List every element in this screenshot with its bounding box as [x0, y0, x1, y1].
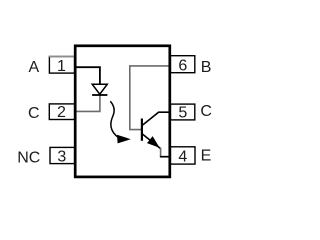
- svg-text:1: 1: [57, 58, 66, 75]
- pin 5 box: [170, 104, 194, 120]
- LED (emitter diode): [92, 84, 107, 95]
- svg-text:C: C: [28, 105, 40, 122]
- wire LED cathode to pin 2: [74, 95, 100, 111]
- pin 4 box: [170, 147, 195, 164]
- svg-text:2: 2: [57, 104, 66, 121]
- svg-text:A: A: [29, 59, 40, 76]
- phototransistor: [142, 112, 170, 157]
- pin 2 box: [49, 104, 74, 120]
- svg-text:3: 3: [57, 148, 66, 165]
- pin 3 box: [50, 147, 75, 163]
- svg-text:5: 5: [178, 105, 187, 122]
- svg-text:B: B: [201, 59, 212, 76]
- svg-text:NC: NC: [17, 149, 40, 166]
- pin 6 box: [170, 56, 194, 73]
- svg-text:6: 6: [178, 58, 187, 75]
- light coupling arrow: [110, 101, 131, 143]
- wire pin 6 to transistor base: [130, 66, 170, 130]
- package outline: [75, 46, 170, 177]
- wire pin 1 to LED anode: [74, 67, 100, 84]
- svg-text:E: E: [201, 148, 212, 165]
- pin 1 box: [49, 57, 75, 74]
- svg-text:C: C: [200, 103, 212, 120]
- svg-text:4: 4: [178, 148, 187, 165]
